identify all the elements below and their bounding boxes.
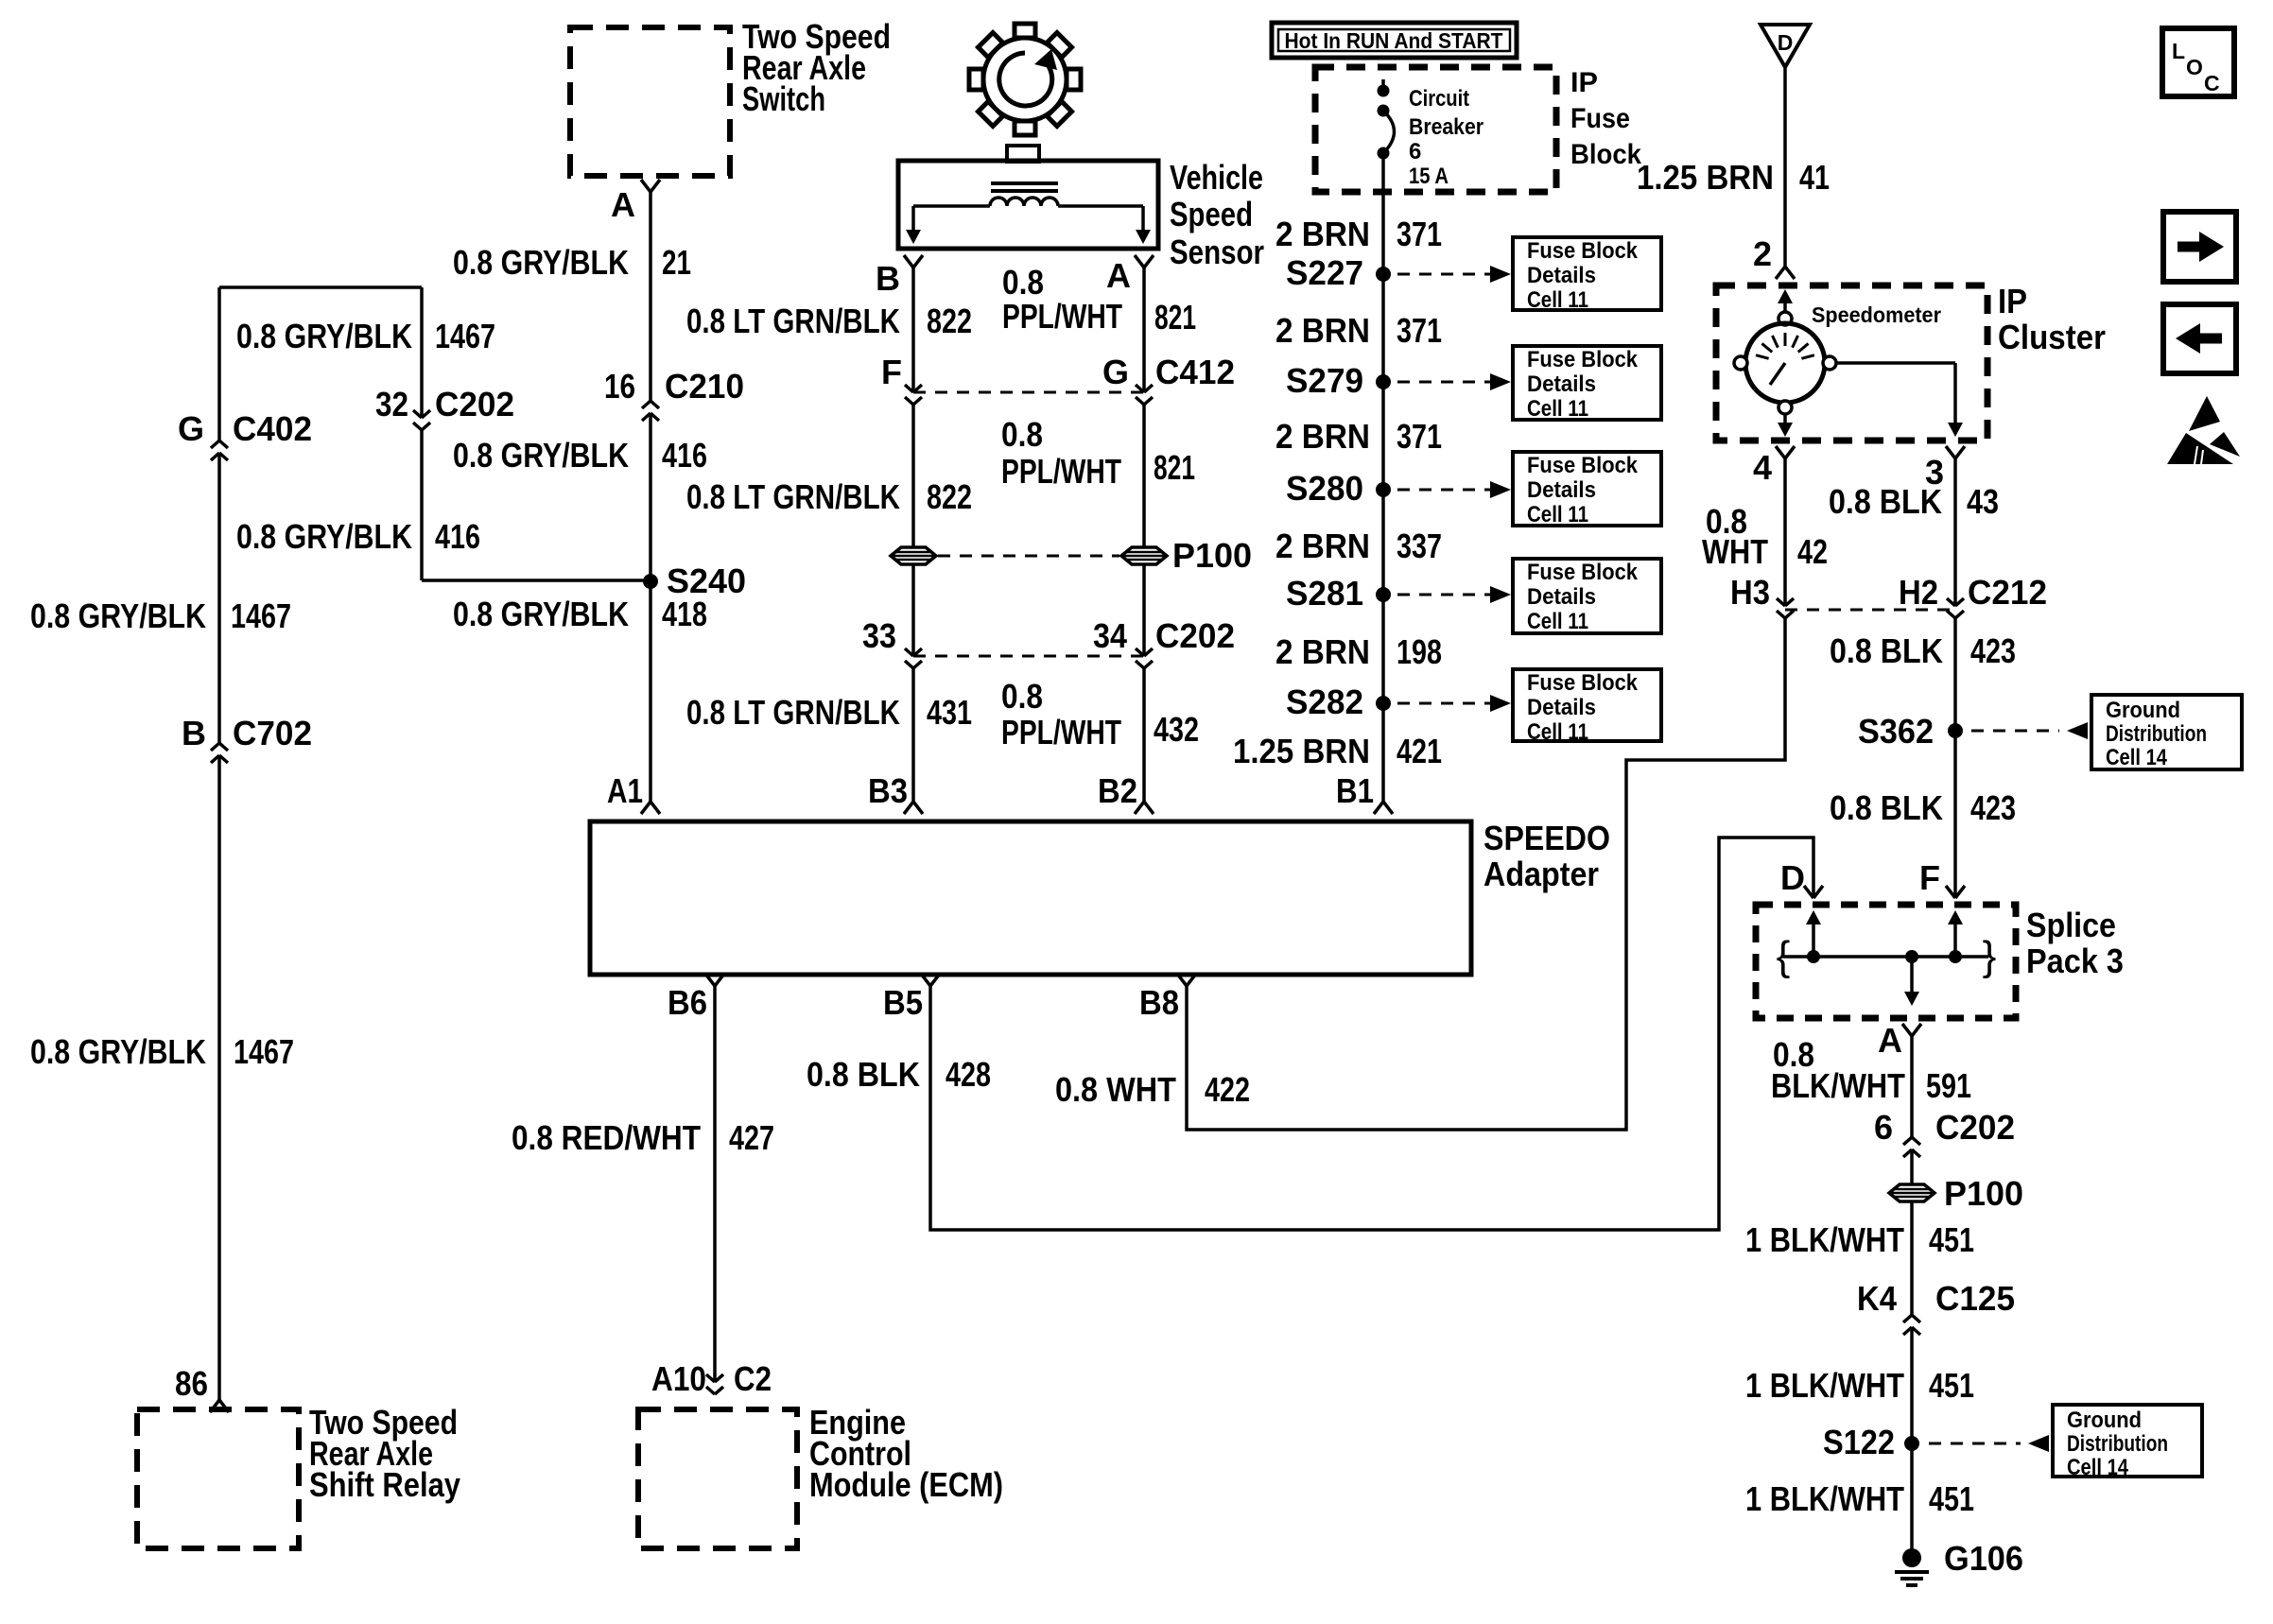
svg-text:K4: K4 bbox=[1857, 1279, 1897, 1318]
pin B8 of SPEEDO adapter bbox=[1177, 974, 1196, 986]
svg-text:821: 821 bbox=[1154, 298, 1196, 337]
wire 0.8 GRY/BLK 21 (switch A to C210) bbox=[649, 192, 652, 401]
svg-text:822: 822 bbox=[927, 477, 972, 516]
svg-text:Fuse Block: Fuse Block bbox=[1527, 238, 1639, 264]
svg-text:432: 432 bbox=[1154, 710, 1199, 749]
connector C2 pin A10 bbox=[706, 1374, 723, 1394]
svg-text:198: 198 bbox=[1397, 632, 1442, 671]
svg-text:G106: G106 bbox=[1944, 1539, 2023, 1578]
svg-text:822: 822 bbox=[927, 302, 972, 340]
wire 2 BRN 371 (breaker to S227) bbox=[1381, 153, 1385, 274]
svg-text:WHT: WHT bbox=[1702, 532, 1768, 571]
wire 0.8 BLK 428 (adapter B5 to splice pack D) bbox=[930, 838, 1813, 1230]
svg-text:34: 34 bbox=[1093, 616, 1127, 655]
svg-text:}: } bbox=[1983, 933, 1997, 979]
svg-text:PPL/WHT: PPL/WHT bbox=[1001, 713, 1121, 752]
svg-text:Cell 11: Cell 11 bbox=[1527, 287, 1588, 313]
reference box: Fuse Block Details Cell 11 (S281) bbox=[1513, 559, 1661, 633]
svg-text:C2: C2 bbox=[734, 1359, 772, 1398]
locator symbol LOC bbox=[2162, 28, 2234, 96]
svg-text:371: 371 bbox=[1397, 215, 1442, 253]
svg-text:Fuse Block: Fuse Block bbox=[1527, 560, 1639, 585]
wire 0.8 WHT 42 (cluster 4 to C212 H3) bbox=[1783, 458, 1787, 606]
svg-text:431: 431 bbox=[927, 693, 972, 732]
svg-text:Details: Details bbox=[1527, 584, 1596, 610]
svg-text:B2: B2 bbox=[1098, 771, 1137, 810]
svg-text:371: 371 bbox=[1397, 417, 1442, 456]
svg-text:1467: 1467 bbox=[435, 317, 495, 355]
svg-text:C202: C202 bbox=[1935, 1108, 2015, 1147]
adapter: SPEEDO Adapter box bbox=[590, 821, 1471, 975]
svg-text:BLK/WHT: BLK/WHT bbox=[1771, 1066, 1905, 1105]
svg-text:Speed: Speed bbox=[1170, 195, 1253, 233]
connector C202 pins 33 and 34 (dashed tie) bbox=[913, 655, 1144, 658]
svg-text:Breaker: Breaker bbox=[1409, 114, 1484, 140]
svg-text:41: 41 bbox=[1799, 158, 1830, 197]
svg-text:Sensor: Sensor bbox=[1170, 233, 1264, 271]
svg-text:C212: C212 bbox=[1968, 573, 2047, 612]
grommet P100 on LT GRN/BLK wire bbox=[891, 547, 936, 564]
svg-text:Pack 3: Pack 3 bbox=[2026, 942, 2124, 980]
splice pack internal bus bbox=[1783, 955, 1988, 959]
svg-text:Details: Details bbox=[1527, 371, 1596, 397]
svg-text:G: G bbox=[1102, 353, 1129, 391]
splice S279 bbox=[1376, 374, 1391, 389]
S362 reference arrow to ground distribution bbox=[1971, 730, 2059, 733]
svg-text:21: 21 bbox=[662, 243, 691, 282]
svg-text:Ground: Ground bbox=[2106, 698, 2180, 723]
svg-text:C: C bbox=[2204, 71, 2220, 95]
svg-text:Speedometer: Speedometer bbox=[1812, 302, 1941, 327]
wire 1.25 BRN 41 (triangle D to IP cluster pin 2) bbox=[1783, 67, 1787, 267]
svg-text:C210: C210 bbox=[665, 367, 744, 406]
relay: Two Speed Rear Axle Shift Relay (dashed box) bbox=[137, 1409, 299, 1548]
svg-text:C412: C412 bbox=[1155, 353, 1235, 391]
svg-text:B8: B8 bbox=[1139, 983, 1179, 1022]
svg-text:D: D bbox=[1778, 30, 1794, 55]
svg-text:B: B bbox=[182, 714, 206, 752]
svg-text:427: 427 bbox=[729, 1118, 774, 1157]
wire 0.8 WHT 42 (C212 H3 down and over to adapter B8 - 0.8 WHT 422) bbox=[1187, 618, 1785, 1130]
svg-text:421: 421 bbox=[1397, 732, 1442, 770]
svg-text:P100: P100 bbox=[1944, 1174, 2023, 1213]
svg-text:16: 16 bbox=[604, 367, 635, 406]
svg-text:422: 422 bbox=[1205, 1070, 1250, 1109]
svg-text:Vehicle: Vehicle bbox=[1170, 158, 1263, 197]
svg-text:0.8: 0.8 bbox=[1001, 415, 1043, 454]
svg-text:0.8 GRY/BLK: 0.8 GRY/BLK bbox=[453, 243, 629, 282]
pickup coil bbox=[990, 198, 1058, 206]
svg-text:Cell 11: Cell 11 bbox=[1527, 609, 1588, 634]
svg-text:0.8 GRY/BLK: 0.8 GRY/BLK bbox=[236, 317, 412, 355]
svg-text:337: 337 bbox=[1397, 527, 1442, 565]
svg-text:S362: S362 bbox=[1858, 712, 1934, 751]
svg-text:Cluster: Cluster bbox=[1998, 318, 2106, 356]
svg-text:F: F bbox=[881, 353, 902, 391]
wire 0.8 PPL/WHT 432 (P100 to C202-34) bbox=[1142, 564, 1146, 656]
svg-text:1 BLK/WHT: 1 BLK/WHT bbox=[1745, 1366, 1904, 1405]
ESD sensitive symbol bbox=[2167, 396, 2240, 464]
cluster: IP Cluster (dashed box) bbox=[1716, 285, 1987, 441]
sensor internal wires to pins B and A bbox=[913, 204, 990, 208]
wire 2 BRN 371 (S279 to S280) bbox=[1381, 382, 1385, 490]
svg-text:1.25 BRN: 1.25 BRN bbox=[1233, 732, 1370, 770]
svg-text:Circuit: Circuit bbox=[1409, 86, 1469, 112]
svg-text:0.8: 0.8 bbox=[1002, 263, 1044, 302]
svg-text:1467: 1467 bbox=[234, 1032, 294, 1071]
svg-text:451: 451 bbox=[1929, 1366, 1974, 1405]
svg-text:Details: Details bbox=[1527, 263, 1596, 288]
speedometer gauge bbox=[1734, 289, 1836, 414]
feed label: Hot In RUN And START bbox=[1272, 23, 1517, 58]
connector C402 pin G bbox=[211, 441, 228, 460]
svg-text:0.8 BLK: 0.8 BLK bbox=[1830, 631, 1943, 670]
svg-text:C125: C125 bbox=[1935, 1279, 2015, 1318]
svg-text:0.8 RED/WHT: 0.8 RED/WHT bbox=[512, 1118, 701, 1157]
switch: Two Speed Rear Axle Switch (dashed box) bbox=[570, 27, 730, 176]
grommet P100 on PPL/WHT wire bbox=[1121, 547, 1167, 564]
svg-text:86: 86 bbox=[175, 1364, 208, 1403]
svg-text:42: 42 bbox=[1797, 532, 1828, 571]
svg-text:C202: C202 bbox=[435, 385, 514, 423]
svg-text:IP: IP bbox=[1570, 67, 1598, 98]
svg-text:Shift Relay: Shift Relay bbox=[309, 1465, 460, 1504]
svg-text:33: 33 bbox=[862, 616, 896, 655]
circuit breaker 6 15A bbox=[1381, 79, 1385, 91]
wire 1 BLK/WHT 451 (C125 to S122) bbox=[1910, 1327, 1914, 1443]
svg-text:Switch: Switch bbox=[742, 79, 825, 118]
splice S362 bbox=[1948, 723, 1963, 738]
svg-text:0.8 GRY/BLK: 0.8 GRY/BLK bbox=[236, 517, 412, 556]
wire 0.8 PPL/WHT 821 (VSS A to C412 G) bbox=[1142, 268, 1146, 392]
svg-text:0.8 BLK: 0.8 BLK bbox=[807, 1055, 920, 1094]
arrow symbol right bbox=[2163, 212, 2236, 282]
svg-text:B1: B1 bbox=[1336, 771, 1374, 810]
connector C702 pin B bbox=[211, 743, 228, 763]
reference box: Fuse Block Details Cell 11 (S279) bbox=[1513, 346, 1661, 420]
wire 0.8 BLK 43 (cluster 3 to C212 H2) bbox=[1953, 458, 1957, 606]
svg-text:C202: C202 bbox=[1155, 616, 1235, 655]
svg-text:2 BRN: 2 BRN bbox=[1275, 632, 1370, 671]
svg-text:15 A: 15 A bbox=[1409, 164, 1449, 189]
wire 0.8 BLK 423 (S362 to splice pack F) bbox=[1953, 731, 1957, 898]
grommet P100 on BLK/WHT wire bbox=[1889, 1184, 1935, 1201]
svg-text:Distribution: Distribution bbox=[2067, 1431, 2168, 1457]
wire 0.8 LT GRN/BLK 822 (VSS B to C412 F) bbox=[911, 268, 915, 392]
reference box: Fuse Block Details Cell 11 (S282) bbox=[1513, 669, 1661, 741]
S280 reference arrow bbox=[1397, 489, 1490, 492]
wire 0.8 GRY/BLK 1467 (C702 to shift relay 86) bbox=[217, 755, 221, 1400]
svg-text:S281: S281 bbox=[1286, 574, 1363, 613]
svg-text:SPEEDO: SPEEDO bbox=[1484, 819, 1610, 857]
svg-text:Cell 14: Cell 14 bbox=[2067, 1455, 2129, 1480]
svg-text:L: L bbox=[2172, 39, 2185, 63]
svg-text:S122: S122 bbox=[1823, 1423, 1895, 1461]
svg-text:G: G bbox=[178, 409, 204, 448]
P100 dashed tie and label bbox=[938, 555, 1119, 558]
svg-text:S282: S282 bbox=[1286, 682, 1363, 721]
reference box: Ground Distribution Cell 14 (S362) bbox=[2091, 695, 2242, 769]
svg-text:2: 2 bbox=[1753, 234, 1772, 273]
fuseblock: IP Fuse Block (dashed box) bbox=[1315, 67, 1556, 192]
splice S282 bbox=[1376, 696, 1391, 711]
svg-text:A10: A10 bbox=[651, 1359, 706, 1398]
svg-text:Splice: Splice bbox=[2026, 906, 2116, 944]
svg-text:O: O bbox=[2186, 55, 2203, 79]
wire 1.25 BRN 421 (S282 to adapter B1) bbox=[1381, 703, 1385, 802]
wire 0.8 RED/WHT 427 (adapter B6 to ECM A10) bbox=[713, 986, 717, 1382]
svg-text:2 BRN: 2 BRN bbox=[1275, 215, 1370, 253]
svg-text:821: 821 bbox=[1154, 448, 1195, 487]
wire 0.8 GRY/BLK 1467 branch (S240 up-left to C202-32) bbox=[422, 579, 651, 582]
S282 reference arrow bbox=[1397, 702, 1490, 705]
splicepack: Splice Pack 3 (dashed box) bbox=[1756, 905, 2016, 1018]
svg-text:C702: C702 bbox=[233, 714, 312, 752]
svg-text:Ground: Ground bbox=[2067, 1408, 2142, 1433]
svg-text:1467: 1467 bbox=[231, 596, 291, 635]
wire 0.8 LT GRN/BLK 822 (C412 to P100) bbox=[911, 405, 915, 547]
svg-text:451: 451 bbox=[1929, 1479, 1974, 1518]
svg-text:0.8 GRY/BLK: 0.8 GRY/BLK bbox=[453, 436, 629, 475]
svg-text:416: 416 bbox=[662, 436, 707, 475]
svg-text:D: D bbox=[1780, 858, 1805, 897]
wire 0.8 LT GRN/BLK 431 (C202 to adapter B3) bbox=[911, 668, 915, 802]
svg-text:{: { bbox=[1777, 933, 1791, 979]
svg-text:Cell 11: Cell 11 bbox=[1527, 396, 1588, 422]
svg-text:Fuse Block: Fuse Block bbox=[1527, 453, 1639, 478]
connector C125 pin K4 bbox=[1903, 1315, 1920, 1335]
splice S122 bbox=[1904, 1436, 1919, 1451]
svg-text:C402: C402 bbox=[233, 409, 312, 448]
wire 0.8 GRY/BLK 1467 (C202-32 over to C402) bbox=[420, 287, 424, 418]
svg-text:A1: A1 bbox=[607, 771, 643, 810]
svg-text:371: 371 bbox=[1397, 311, 1442, 350]
svg-text:0.8 LT GRN/BLK: 0.8 LT GRN/BLK bbox=[686, 693, 900, 732]
svg-text:Cell 11: Cell 11 bbox=[1527, 719, 1588, 745]
connector C412 pins F and G (dashed tie) bbox=[913, 391, 1144, 394]
wire 1 BLK/WHT 451 (S122 to G106) bbox=[1910, 1443, 1914, 1550]
svg-text:S227: S227 bbox=[1286, 253, 1363, 292]
wire 0.8 BLK 423 (C212 H2 to S362) bbox=[1953, 618, 1957, 731]
svg-text:6: 6 bbox=[1874, 1108, 1893, 1147]
svg-text:0.8 LT GRN/BLK: 0.8 LT GRN/BLK bbox=[686, 477, 900, 516]
svg-text:0.8: 0.8 bbox=[1001, 677, 1043, 716]
svg-text:IP: IP bbox=[1998, 282, 2027, 320]
svg-text:0.8 GRY/BLK: 0.8 GRY/BLK bbox=[30, 596, 206, 635]
svg-text:0.8 BLK: 0.8 BLK bbox=[1829, 482, 1942, 521]
svg-text:Block: Block bbox=[1570, 139, 1641, 170]
svg-text:B: B bbox=[876, 259, 900, 298]
wire 0.8 GRY/BLK 1467 (C402 to C702) bbox=[217, 453, 221, 743]
svg-text:B3: B3 bbox=[868, 771, 908, 810]
wire (C202-6 to P100) bbox=[1910, 1149, 1914, 1184]
connector C210 pin 16 bbox=[642, 401, 659, 421]
svg-text:H2: H2 bbox=[1899, 573, 1938, 612]
S227 reference arrow to fuse block details bbox=[1397, 273, 1490, 276]
wire 0.8 PPL/WHT 821 (C412 to P100) bbox=[1142, 405, 1146, 547]
svg-text:Distribution: Distribution bbox=[2106, 721, 2207, 747]
splice S280 bbox=[1376, 482, 1391, 497]
splice pack output leg A bbox=[1905, 950, 1918, 963]
svg-text:B6: B6 bbox=[668, 983, 707, 1022]
wire 1 BLK/WHT 451 (P100 to C125 K4) bbox=[1910, 1201, 1914, 1315]
svg-text:Details: Details bbox=[1527, 477, 1596, 503]
splice S281 bbox=[1376, 587, 1391, 602]
svg-text:418: 418 bbox=[662, 595, 707, 633]
ecm: Engine Control Module dashed box bbox=[638, 1409, 797, 1548]
wire 2 BRN 371 (S227 to S279) bbox=[1381, 274, 1385, 382]
S122 reference arrow to ground distribution bbox=[1929, 1443, 2021, 1445]
svg-text:PPL/WHT: PPL/WHT bbox=[1001, 452, 1121, 491]
svg-text:Details: Details bbox=[1527, 695, 1596, 720]
svg-text:428: 428 bbox=[946, 1055, 991, 1094]
svg-text:0.8 GRY/BLK: 0.8 GRY/BLK bbox=[453, 595, 629, 633]
wire 0.8 GRY/BLK 418 (S240 to SPEEDO adapter A1) bbox=[649, 581, 652, 802]
connector C202 pin 6 bbox=[1903, 1137, 1920, 1157]
svg-text:0.8 LT GRN/BLK: 0.8 LT GRN/BLK bbox=[686, 302, 900, 340]
connector C202 pin 32 bbox=[413, 410, 430, 430]
svg-text:Fuse Block: Fuse Block bbox=[1527, 347, 1639, 372]
svg-text:S279: S279 bbox=[1286, 361, 1363, 400]
svg-text:0.8 WHT: 0.8 WHT bbox=[1055, 1070, 1176, 1109]
splice S227 bbox=[1376, 267, 1391, 282]
svg-text:2 BRN: 2 BRN bbox=[1275, 527, 1370, 565]
connector C212 pins H3 and H2 (dashed tie) bbox=[1785, 609, 1955, 612]
splice S240 bbox=[643, 574, 658, 589]
reference box: Ground Distribution Cell 14 (S122) bbox=[2053, 1405, 2202, 1477]
reference box: Fuse Block Details Cell 11 (S280) bbox=[1513, 452, 1661, 526]
pickup core lines bbox=[991, 181, 1058, 185]
svg-text:F: F bbox=[1919, 858, 1940, 897]
svg-text:423: 423 bbox=[1970, 631, 2016, 670]
svg-text:451: 451 bbox=[1929, 1220, 1974, 1259]
svg-text:Cell 14: Cell 14 bbox=[2106, 745, 2168, 770]
reference box: Fuse Block Details Cell 11 (S227) bbox=[1513, 237, 1661, 310]
svg-text:0.8 BLK: 0.8 BLK bbox=[1830, 788, 1943, 827]
sensor: Vehicle Speed Sensor box with pickup coil bbox=[1007, 146, 1039, 162]
wire 0.8 PPL/WHT 432 (C202 to adapter B2) bbox=[1142, 668, 1146, 802]
svg-text:S280: S280 bbox=[1286, 469, 1363, 508]
svg-text:1 BLK/WHT: 1 BLK/WHT bbox=[1745, 1479, 1904, 1518]
svg-text:Module (ECM): Module (ECM) bbox=[809, 1465, 1003, 1504]
S281 reference arrow bbox=[1397, 594, 1490, 596]
svg-text:6: 6 bbox=[1409, 139, 1421, 164]
gear icon of vehicle speed sensor bbox=[969, 24, 1081, 135]
S279 reference arrow bbox=[1397, 381, 1490, 384]
svg-text:PPL/WHT: PPL/WHT bbox=[1002, 297, 1122, 336]
svg-text:2 BRN: 2 BRN bbox=[1275, 311, 1370, 350]
svg-text:Fuse Block: Fuse Block bbox=[1527, 670, 1639, 696]
svg-text:Fuse: Fuse bbox=[1570, 103, 1630, 134]
svg-text:H3: H3 bbox=[1730, 573, 1770, 612]
svg-text:416: 416 bbox=[435, 517, 480, 556]
wire 2 BRN 198 (S281 to S282) bbox=[1381, 595, 1385, 703]
svg-text:2 BRN: 2 BRN bbox=[1275, 417, 1370, 456]
splice pack F leg bbox=[1953, 914, 1957, 957]
power feed triangle D bbox=[1761, 25, 1810, 67]
wire 0.8 GRY/BLK 416 (C210 to S240) bbox=[649, 413, 652, 581]
svg-text:4: 4 bbox=[1753, 448, 1772, 487]
svg-text:Cell 11: Cell 11 bbox=[1527, 502, 1588, 527]
svg-text:423: 423 bbox=[1970, 788, 2016, 827]
svg-text:Adapter: Adapter bbox=[1484, 855, 1599, 893]
wire 0.8 BLK/WHT 591 (splice pack A to C202-6) bbox=[1910, 1036, 1914, 1137]
speedometer output wires inside cluster bbox=[1836, 361, 1955, 365]
splice pack D leg bbox=[1812, 914, 1815, 957]
svg-text:A: A bbox=[611, 185, 635, 224]
svg-text:43: 43 bbox=[1967, 482, 1999, 521]
svg-text:1.25 BRN: 1.25 BRN bbox=[1637, 158, 1774, 197]
svg-text:A: A bbox=[1106, 256, 1131, 295]
svg-text:A: A bbox=[1878, 1021, 1902, 1060]
svg-text:P100: P100 bbox=[1172, 536, 1252, 575]
svg-text:32: 32 bbox=[375, 385, 408, 423]
svg-text:1 BLK/WHT: 1 BLK/WHT bbox=[1745, 1220, 1904, 1259]
svg-text:0.8 GRY/BLK: 0.8 GRY/BLK bbox=[30, 1032, 206, 1071]
ground G106 bbox=[1902, 1548, 1921, 1567]
svg-text:Hot In RUN And START: Hot In RUN And START bbox=[1285, 28, 1503, 53]
svg-text:B5: B5 bbox=[883, 983, 923, 1022]
arrow symbol left bbox=[2163, 304, 2236, 373]
svg-text:591: 591 bbox=[1926, 1066, 1971, 1105]
wire 2 BRN 337 (S280 to S281) bbox=[1381, 490, 1385, 595]
wire 0.8 LT GRN/BLK 431 (P100 to C202-33) bbox=[911, 564, 915, 656]
